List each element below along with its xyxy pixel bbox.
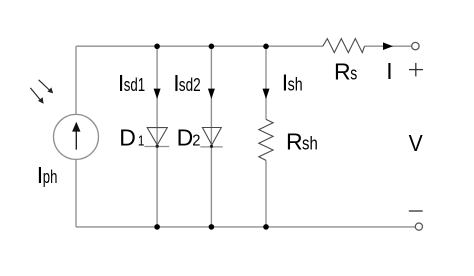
wire top rail right (365, 45, 412, 47)
svg-text:R: R (334, 58, 351, 84)
wire left rail lower (75, 159, 77, 227)
node dot bottom Rsh (263, 224, 269, 230)
svg-text:sh: sh (288, 74, 303, 94)
resistor Rs zigzag (323, 39, 365, 53)
label Isd2 (173, 70, 201, 96)
svg-text:ph: ph (43, 167, 58, 187)
light arrow 1 (39, 80, 54, 94)
wire left rail upper (75, 46, 77, 114)
svg-text:sh: sh (302, 134, 318, 154)
current arrow Isd2 (208, 89, 215, 99)
current source arrow (72, 122, 80, 150)
current source Iph circle (54, 114, 99, 159)
current arrow Isd1 (154, 89, 161, 99)
current arrow Ish (263, 89, 270, 99)
node dot bottom D1 (154, 224, 160, 230)
minus sign (409, 210, 423, 212)
svg-text:1: 1 (138, 132, 145, 149)
svg-text:I: I (386, 58, 392, 84)
wire D2 branch (210, 46, 212, 227)
node dot top D1 (154, 44, 160, 50)
label Rs (334, 58, 357, 84)
svg-text:2: 2 (192, 133, 200, 150)
plus sign (409, 63, 423, 77)
svg-text:D: D (119, 124, 136, 150)
diode D2 (200, 128, 222, 148)
svg-text:R: R (286, 129, 303, 155)
diode D1 (144, 128, 169, 148)
svg-text:sd1: sd1 (124, 75, 145, 95)
svg-text:s: s (350, 63, 357, 83)
light arrow 2 (30, 88, 43, 104)
current arrow I on top rail (383, 42, 393, 50)
terminal bottom (415, 223, 422, 230)
wire Rsh branch lower (265, 160, 267, 227)
svg-text:sd2: sd2 (179, 75, 201, 95)
label D1 (119, 124, 144, 150)
wire top rail left (76, 45, 323, 47)
label Rsh (286, 129, 318, 155)
svg-text:V: V (409, 130, 424, 156)
node dot bottom D2 (209, 224, 215, 230)
wire Rsh branch upper (265, 46, 267, 119)
resistor Rsh zigzag (259, 119, 273, 160)
label Iph (37, 162, 58, 188)
wire D1 branch (156, 46, 158, 227)
label D2 (177, 125, 201, 151)
label Ish (282, 69, 303, 95)
terminal top (412, 42, 419, 49)
wire bottom rail (76, 226, 415, 228)
node dot top Rsh (263, 44, 269, 50)
node dot top D2 (209, 44, 215, 50)
label Isd1 (118, 70, 145, 96)
svg-text:D: D (177, 125, 194, 151)
